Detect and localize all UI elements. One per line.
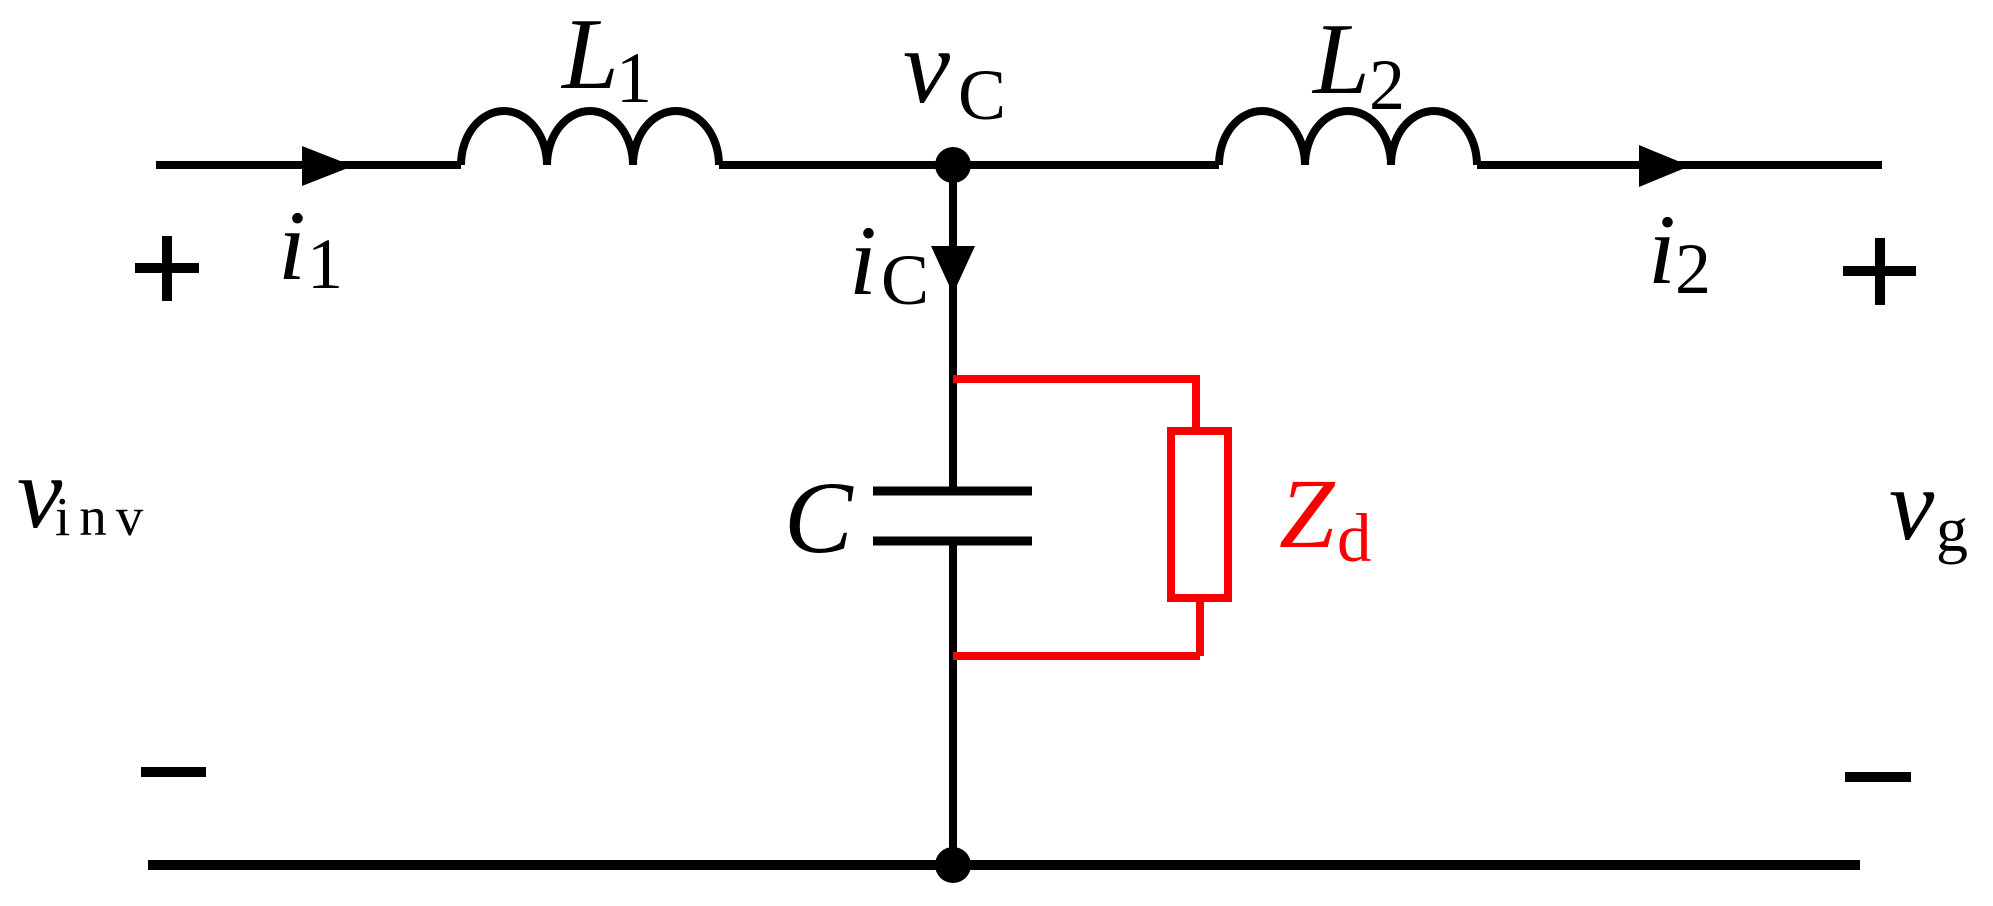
svg-text:v: v bbox=[1889, 449, 1935, 562]
svg-text:2: 2 bbox=[1675, 229, 1711, 309]
svg-text:C: C bbox=[881, 240, 929, 320]
svg-text:1: 1 bbox=[616, 38, 652, 118]
svg-text:g: g bbox=[1936, 494, 1968, 565]
svg-text:inv: inv bbox=[55, 486, 152, 547]
svg-text:i: i bbox=[849, 205, 877, 316]
svg-text:d: d bbox=[1337, 500, 1372, 576]
svg-text:i: i bbox=[278, 190, 306, 301]
svg-text:v: v bbox=[903, 8, 951, 125]
svg-text:2: 2 bbox=[1369, 45, 1405, 125]
svg-text:L: L bbox=[1311, 3, 1370, 116]
svg-text:Z: Z bbox=[1279, 458, 1336, 569]
svg-text:i: i bbox=[1648, 194, 1676, 305]
svg-text:C: C bbox=[784, 461, 854, 575]
svg-text:L: L bbox=[560, 0, 619, 111]
svg-text:1: 1 bbox=[307, 224, 343, 304]
svg-text:C: C bbox=[958, 55, 1006, 135]
